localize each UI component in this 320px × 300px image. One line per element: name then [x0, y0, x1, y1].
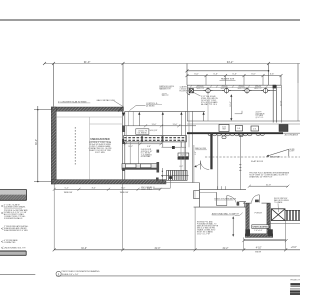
small vertical dim [232, 217, 234, 236]
hatch band left [122, 164, 158, 170]
svg-text:SILL TYP: SILL TYP [162, 95, 169, 97]
unexcavated note lines [88, 141, 112, 154]
control joint label [146, 103, 159, 107]
extension line left wall [53, 64, 55, 107]
svg-text:FOUNDATION WALLS: FOUNDATION WALLS [4, 217, 23, 220]
wall window marks [218, 186, 226, 189]
dim tick [268, 70, 270, 72]
garage top wall [51, 107, 123, 111]
existing wall dark line [187, 132, 283, 134]
flat roof note paragraph [249, 172, 290, 179]
beam label box 2 [142, 136, 162, 142]
short verticals [127, 111, 129, 125]
beam centerline vertical [207, 93, 209, 121]
joist arrow 1 [138, 114, 140, 127]
leader corner [235, 111, 242, 114]
interior dim arrow [230, 95, 232, 120]
svg-text:11'-0": 11'-0" [173, 124, 178, 126]
extension line bay end [280, 76, 282, 85]
band wall line upper [187, 120, 300, 122]
steps lower line [268, 223, 300, 225]
flat roof dim [249, 185, 287, 187]
down arrow garage corner [122, 113, 125, 117]
svg-text:1/4"/FT: 1/4"/FT [290, 151, 295, 153]
garage right wall hatch segments [122, 126, 125, 132]
header wall lower line [187, 87, 281, 89]
post circle 1 [204, 87, 271, 93]
beam dash row 1 [124, 137, 186, 139]
header wall hatch ticks [190, 85, 276, 87]
beam end cap dark [172, 146, 175, 149]
corner X post [189, 89, 193, 93]
porch top jamb lines [243, 202, 252, 204]
svg-text:ACCORDANCE: ACCORDANCE [285, 134, 299, 137]
lower note block [197, 220, 219, 235]
svg-text:31'-8": 31'-8" [266, 185, 271, 187]
small note right [256, 112, 266, 119]
dim tick [243, 74, 246, 77]
porch door arc [252, 195, 260, 203]
sheet top edge line [0, 19, 300, 21]
svg-text:+3'-6": +3'-6" [291, 247, 297, 249]
window seg texts [65, 188, 152, 190]
svg-text:FLAT ROOF: FLAT ROOF [251, 160, 264, 163]
dashed ceiling line [205, 156, 300, 158]
svg-text:5'-2": 5'-2" [65, 188, 69, 190]
leader to wall [114, 101, 123, 107]
dark bar right of band [157, 150, 160, 153]
porch header wall top [187, 84, 281, 86]
svg-text:FLUSH BEAM: FLUSH BEAM [180, 90, 192, 93]
svg-text:DRAIN MIN. 1/4" PER FOOT: DRAIN MIN. 1/4" PER FOOT [249, 176, 273, 179]
svg-text:34'-2": 34'-2" [35, 139, 38, 145]
wood steps note [274, 198, 289, 204]
svg-text:WINDOW: WINDOW [64, 192, 73, 194]
layered beam note [180, 86, 192, 93]
joist label blob [197, 86, 263, 90]
post note block [201, 95, 218, 106]
lower north wall double [199, 189, 246, 191]
svg-text:UNDISTURBED SOIL TYP.: UNDISTURBED SOIL TYP. [4, 247, 26, 249]
svg-text:8'-0": 8'-0" [92, 188, 96, 190]
footing inner line vertical [89, 117, 91, 180]
band wall line lower [187, 123, 300, 125]
svg-text:6'-5": 6'-5" [233, 74, 238, 76]
svg-text:WIDTH: WIDTH [255, 252, 262, 254]
stair leader arrow right [195, 164, 201, 167]
dim connector bottom [34, 181, 54, 183]
wing wall verticals [217, 135, 219, 190]
svg-text:UNEXCAVATED: UNEXCAVATED [253, 226, 269, 229]
svg-text:5'-8": 5'-8" [147, 146, 151, 148]
dim tick [205, 74, 208, 77]
post note leader [193, 92, 200, 96]
stair wall verticals [181, 111, 194, 182]
bottom dim ticks [53, 248, 288, 251]
beam line [189, 90, 276, 92]
band label box 2 [235, 126, 242, 132]
left note 4 [4, 239, 18, 244]
porch corner posts [245, 229, 250, 236]
slab centerline dashed [74, 127, 76, 165]
mid note block [141, 149, 153, 158]
tick marks on wall [239, 165, 241, 170]
garage wall end diagonal [118, 107, 123, 112]
svg-text:HDR TYP: HDR TYP [254, 88, 262, 90]
garage right wall [122, 111, 125, 179]
band label box 3 [251, 126, 259, 131]
dim tick [267, 62, 270, 65]
bottom main dim line [54, 249, 300, 251]
steps top bottom lines [285, 209, 300, 211]
svg-text:11'-2": 11'-2" [128, 146, 133, 148]
wall corner dark post [273, 85, 276, 89]
band label box 4 dark [279, 125, 288, 132]
svg-text:LEDGER W/: LEDGER W/ [256, 113, 266, 115]
beam label box 3 [163, 136, 186, 142]
svg-text:BSMT. STAIR: BSMT. STAIR [141, 188, 153, 191]
right wall double line [273, 85, 276, 122]
interior door arc [227, 196, 237, 206]
stair beam label box [178, 153, 189, 156]
exterior steps treads [287, 210, 299, 220]
lower west wall [198, 183, 200, 208]
svg-text:GLUE+NAIL: GLUE+NAIL [141, 155, 151, 158]
svg-text:2x6 PT: 2x6 PT [162, 93, 167, 95]
porch left wall [246, 203, 250, 234]
bottom dim texts [81, 247, 297, 250]
extension line bay [225, 76, 227, 85]
svg-text:31'-0": 31'-0" [84, 60, 91, 64]
stair box [167, 170, 188, 180]
svg-text:9'-6": 9'-6" [195, 151, 197, 155]
svg-text:UNEXCAVATED: UNEXCAVATED [90, 137, 109, 141]
extension line bay [205, 76, 207, 85]
dim tick [37, 181, 38, 182]
joist arrow 3 [180, 114, 182, 148]
control joint leader [130, 106, 146, 111]
svg-text:6'-5": 6'-5" [251, 74, 256, 76]
svg-text:6'-2": 6'-2" [180, 166, 184, 168]
footing inner line top [56, 116, 122, 118]
stair arrowhead blob [169, 176, 172, 179]
beam label box 1 [124, 136, 142, 142]
post circle 3 [245, 88, 249, 92]
tiny note above control joint [162, 93, 169, 97]
lower interior dim line [122, 143, 162, 145]
svg-text:PROPOSED FOUNDATION FRAMING: PROPOSED FOUNDATION FRAMING [62, 270, 100, 273]
garage bottom wall [51, 180, 166, 184]
right vertical dim [281, 85, 283, 123]
dim tick [186, 74, 189, 77]
dim ticks window [53, 188, 162, 191]
svg-text:D.S.: D.S. [253, 128, 257, 130]
svg-text:2x10 PT: 2x10 PT [256, 112, 262, 114]
svg-text:WOOD STEPS W/: WOOD STEPS W/ [274, 198, 288, 200]
extension line right [297, 64, 299, 84]
svg-text:SLAB PERIMETER 2'-0" MIN.: SLAB PERIMETER 2'-0" MIN. [4, 229, 28, 232]
stair beam dark bar [178, 157, 189, 160]
svg-text:@ 12" O.C. TYP.: @ 12" O.C. TYP. [197, 233, 211, 235]
bottom extension lines [54, 184, 286, 250]
window dim line [54, 188, 160, 190]
dim tick [262, 74, 265, 77]
svg-text:12'-8": 12'-8" [280, 100, 282, 106]
landing X box [271, 209, 285, 221]
left note 3 [4, 225, 28, 232]
additional wall leader [235, 213, 243, 216]
title underline long [56, 275, 300, 277]
svg-text:34'-2": 34'-2" [227, 60, 234, 64]
walkway triangle vertical [288, 149, 290, 156]
svg-text:6'-6": 6'-6" [194, 74, 199, 76]
callout box mid [136, 129, 149, 135]
svg-text:@ 16" O.C.: @ 16" O.C. [256, 117, 265, 119]
porch base line [244, 238, 287, 240]
svg-text:D.S.: D.S. [237, 128, 241, 130]
walkway arrowhead [266, 155, 269, 157]
interior step wall [216, 192, 218, 205]
dimension line overall top [44, 63, 300, 65]
svg-text:31'-0": 31'-0" [81, 248, 87, 250]
svg-text:31'-2": 31'-2" [222, 248, 228, 250]
svg-text:8'-0": 8'-0" [121, 188, 125, 190]
left detail bar 2 [0, 251, 26, 255]
porch unexcavated box [252, 225, 269, 229]
door threshold dark [255, 200, 259, 203]
left vertical dimension line [37, 106, 39, 182]
interior dim line [122, 125, 196, 127]
main framing line [125, 110, 205, 112]
svg-text:SLOPE: SLOPE [290, 149, 295, 151]
svg-text:EA. WAY, TYP. OF 4: EA. WAY, TYP. OF 4 [201, 103, 217, 106]
svg-text:6'-6": 6'-6" [270, 74, 275, 76]
interior wall verticals [126, 126, 128, 144]
post circle 2 [224, 88, 228, 92]
extension line garage right wall [122, 64, 124, 107]
svg-text:PORCH: PORCH [255, 212, 263, 214]
dim tick [52, 62, 55, 65]
dim tick [37, 109, 38, 110]
below stair floor line [158, 182, 200, 184]
svg-text:HDR TYP: HDR TYP [197, 88, 205, 90]
svg-text:WALKWAY: WALKWAY [270, 155, 281, 158]
post circle 4 [263, 88, 267, 92]
garage left wall [51, 107, 56, 184]
dim tick [280, 74, 283, 77]
mech room wall dark [210, 133, 212, 170]
posts area left wall line [186, 85, 188, 121]
svg-text:SCALE: 1/4" = 1'-0": SCALE: 1/4" = 1'-0" [62, 273, 79, 276]
svg-text:31'-0": 31'-0" [154, 248, 160, 250]
chimney box [194, 191, 200, 199]
porch upper dim row [244, 240, 287, 242]
svg-text:WINDOW: WINDOW [120, 192, 129, 194]
dimension line C bays [187, 75, 281, 77]
svg-text:10'-0": 10'-0" [230, 101, 232, 106]
dimension line B [187, 70, 269, 72]
dim tick [186, 69, 189, 72]
svg-text:COMPACTED: COMPACTED [4, 241, 16, 244]
walkway note [290, 149, 295, 153]
bottom separator line left [0, 273, 35, 275]
joist arrow 4 [203, 114, 205, 122]
enclosure label [141, 187, 155, 191]
stair arrow [161, 175, 189, 177]
left note 2 [4, 209, 28, 220]
long lower line [194, 206, 246, 208]
dim connector top [34, 109, 54, 111]
extension line porch bay left [186, 64, 188, 86]
left detail bar 1 gray [0, 190, 27, 195]
svg-text:6'-5": 6'-5" [214, 74, 219, 76]
porch bottom wall hatch [245, 234, 272, 238]
left detail bar 1 hatch [0, 195, 27, 201]
beam note leader arrow [186, 92, 190, 94]
svg-text:GALV. METAL FLSH: GALV. METAL FLSH [97, 99, 116, 102]
left note 1 [4, 204, 26, 209]
wood steps leader [277, 203, 280, 212]
footing inner line mid [90, 123, 123, 125]
porch right wall [267, 203, 271, 234]
svg-text:PROJECT No. 2167: PROJECT No. 2167 [290, 280, 300, 282]
svg-text:(2) SIDED: (2) SIDED [146, 105, 155, 107]
title bubble [56, 271, 61, 276]
extension line bay [262, 76, 264, 85]
beam dash row 2 [124, 139, 186, 141]
small hatch jamb [237, 202, 239, 206]
dim tick [224, 74, 227, 77]
dim tick [43, 62, 46, 65]
right outer line [297, 83, 299, 121]
scallop circle mark [222, 136, 226, 139]
extension line [268, 64, 270, 86]
svg-text:11'-0": 11'-0" [152, 124, 157, 126]
svg-text:LVL RIM BD: LVL RIM BD [138, 133, 148, 135]
line mid [162, 146, 187, 148]
mech door arc [200, 161, 209, 170]
svg-text:FOOT. MIN.: FOOT. MIN. [95, 152, 105, 154]
scallop circle mark [239, 134, 243, 137]
svg-text:4'-10": 4'-10" [256, 247, 262, 249]
scalloped removal line [208, 134, 252, 136]
svg-text:2x10 @16": 2x10 @16" [150, 130, 158, 132]
stair treads [169, 170, 186, 180]
band label box 1 [219, 125, 229, 132]
svg-text:1'-4"x1'-4": 1'-4"x1'-4" [254, 230, 262, 232]
enclosure leader [153, 178, 170, 188]
walkway triangle diagonal [267, 149, 288, 156]
joist arrow 2 [162, 114, 164, 148]
svg-text:HANGER TYP.: HANGER TYP. [159, 87, 171, 90]
stair side dim ticks [161, 168, 163, 183]
dim tick [122, 62, 125, 65]
extension line bay [243, 76, 245, 85]
